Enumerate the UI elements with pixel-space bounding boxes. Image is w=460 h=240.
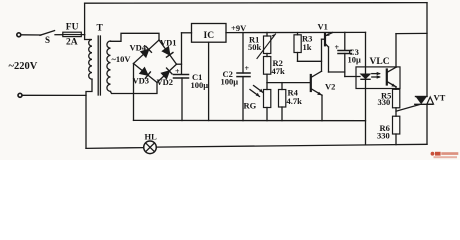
svg-text:50k: 50k <box>248 42 262 52</box>
wire top rail <box>85 2 427 5</box>
svg-text:VD3: VD3 <box>133 76 150 86</box>
svg-text:V2: V2 <box>325 81 335 91</box>
svg-text:VT: VT <box>434 93 446 103</box>
svg-text:+9V: +9V <box>231 23 247 33</box>
svg-text:+: + <box>175 67 180 76</box>
svg-text:RG: RG <box>244 101 257 111</box>
wire secondary top to bridge top <box>111 33 160 41</box>
photoresistor RG <box>266 83 268 90</box>
IC box <box>192 24 227 43</box>
lamp HL <box>144 141 157 154</box>
fuse FU 2A <box>63 32 82 36</box>
svg-text:2A: 2A <box>66 38 78 48</box>
capacitor C1 <box>174 74 189 76</box>
optocoupler VLC box <box>356 67 400 89</box>
svg-text:VD4: VD4 <box>130 43 147 53</box>
diode VD1 <box>162 47 173 58</box>
wire +9V rail <box>226 31 366 33</box>
capacitor C2 <box>242 33 244 74</box>
svg-text:T: T <box>97 24 104 34</box>
wire <box>21 34 41 36</box>
svg-text:IC: IC <box>204 31 215 41</box>
resistor R2 <box>266 54 268 57</box>
wire secondary bottom to bridge bottom <box>111 83 158 94</box>
svg-text:100μ: 100μ <box>221 77 239 87</box>
svg-text:4.7k: 4.7k <box>287 96 303 106</box>
watermark logo <box>431 152 459 158</box>
wire bridge edge top-left <box>134 40 160 64</box>
svg-text:+: + <box>335 43 340 52</box>
wire down to primary <box>85 35 90 40</box>
wire bottom rail right <box>156 144 427 147</box>
wire bridge edge top-right <box>159 40 177 64</box>
svg-text:10μ: 10μ <box>348 55 362 65</box>
resistor R3 <box>297 33 299 35</box>
svg-text:100μ: 100μ <box>191 80 209 90</box>
wire bottom rail left <box>86 147 144 150</box>
svg-text:47k: 47k <box>272 66 286 76</box>
light arrows <box>372 73 380 75</box>
wire primary bottom <box>86 79 92 148</box>
resistor R6 <box>393 116 400 134</box>
switch S <box>40 31 55 36</box>
wire ground rail (mid) <box>134 119 366 121</box>
wire junction to V2 base <box>267 82 311 84</box>
wire bridge edge bottom-left <box>134 64 158 83</box>
wire gate to triac <box>396 105 420 112</box>
diode VD3 <box>140 68 151 79</box>
wire R3/V1 base/V2 collector node <box>298 60 322 62</box>
resistor R1 (adjustable) <box>266 33 268 37</box>
wire collector up <box>395 34 397 68</box>
wire up to top rail <box>84 3 86 34</box>
LED inside VLC <box>365 32 367 73</box>
svg-text:~10V: ~10V <box>112 54 132 64</box>
svg-text:VD1: VD1 <box>160 37 177 47</box>
resistor R5 <box>393 89 400 108</box>
wire <box>55 34 63 36</box>
diode VD4 <box>141 46 152 57</box>
svg-text:VD2: VD2 <box>157 77 174 87</box>
wire bridge edge bottom-right <box>157 64 177 82</box>
wire IC ground <box>208 42 210 120</box>
wire bridge minus node down <box>133 64 135 121</box>
transistor V2 <box>310 75 312 91</box>
svg-text:V1: V1 <box>318 22 328 32</box>
terminal top-left <box>17 33 21 37</box>
svg-text:330: 330 <box>377 130 390 140</box>
capacitor C3 <box>344 32 346 50</box>
transformer T secondary <box>107 41 111 91</box>
transformer T primary <box>89 40 92 80</box>
wire emitter to R5 <box>395 87 397 90</box>
transformer core <box>97 36 99 95</box>
svg-text:~220V: ~220V <box>9 61 38 72</box>
resistor R4 <box>281 83 283 90</box>
svg-text:+: + <box>245 64 250 73</box>
svg-text:FU: FU <box>66 23 79 33</box>
terminal bottom-left <box>18 93 22 97</box>
wire <box>22 94 86 96</box>
phototransistor of VLC <box>386 70 388 85</box>
transistor V1 <box>324 34 326 46</box>
svg-text:HL: HL <box>145 131 158 141</box>
svg-text:1k: 1k <box>303 42 312 52</box>
diode VD2 <box>161 68 172 79</box>
wire bridge plus node to C1/IC <box>177 63 182 65</box>
svg-text:S: S <box>45 35 50 45</box>
svg-text:330: 330 <box>378 97 391 107</box>
triac VT <box>426 3 428 97</box>
svg-text:VLC: VLC <box>370 57 390 67</box>
